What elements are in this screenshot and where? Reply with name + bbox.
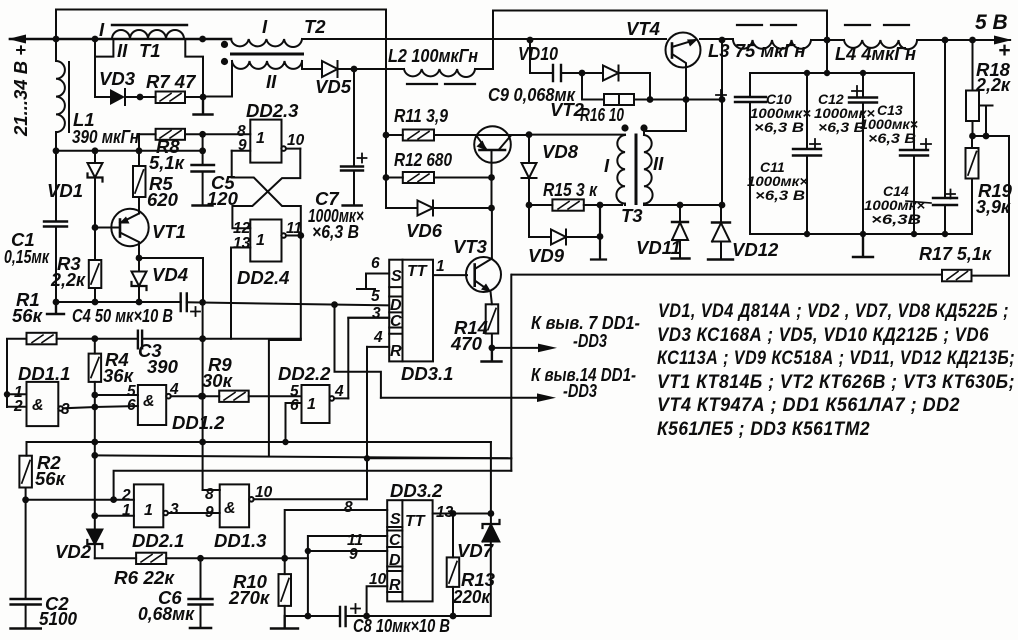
svg-text:620: 620 [147,189,179,210]
node pin6 [91,404,98,411]
svg-text:9: 9 [238,137,247,154]
rail to D input [187,302,389,305]
T3 winding II bottom wire [644,204,722,206]
resistor R18 [966,40,979,136]
svg-text:VD1, VD4 Д814А ; VD2 , VD7,: VD1, VD4 Д814А ; VD2 , VD7, VD8 КД522Б ; [658,301,1009,322]
svg-text:4: 4 [169,381,179,398]
node bank top riser [824,70,830,76]
resistor R11 [386,130,475,141]
long wire 442 [27,441,491,443]
R8 wire to DD2.3 pin8 [139,133,250,135]
svg-text:4: 4 [373,329,383,346]
svg-text:T2: T2 [304,16,326,37]
svg-text:1: 1 [256,130,265,147]
resistor R17 [942,270,1009,282]
node R18 riser top [969,37,976,44]
latch cross wiring [232,149,301,236]
svg-text:L4 4мкГн: L4 4мкГн [835,43,916,64]
node VD1 top [92,147,99,154]
zener VD12 [708,205,733,260]
diode VD8 [522,135,537,205]
svg-text:VD5: VD5 [315,76,352,97]
D net riser [335,305,381,398]
flip-flop DD3.2 [387,500,432,601]
svg-text:×6,3 В: ×6,3 В [868,130,916,146]
node bank top C12 [860,70,866,76]
svg-text:VT1 КТ814Б ; VT2 КТ626В ; VT: VT1 КТ814Б ; VT2 КТ626В ; VT3 КТ630Б; [657,372,1015,393]
svg-text:I: I [99,19,105,40]
bank bottom rail [750,233,972,235]
svg-text:5: 5 [371,288,380,305]
svg-text:6: 6 [290,397,299,414]
capacitor C6 [189,558,213,628]
svg-text:&: & [32,397,44,414]
svg-text:120: 120 [207,188,239,209]
svg-text:2: 2 [13,398,23,415]
resistor R16 [582,73,722,105]
left vertical bus [94,395,96,516]
svg-text:56к: 56к [12,305,44,326]
svg-text:VD9: VD9 [528,245,565,266]
DD3.2 pin13 wire [433,513,491,515]
svg-text:3: 3 [61,401,70,418]
DD2.2 out riser to C [348,318,389,399]
resistor R15 [529,199,600,210]
svg-text:-DD3: -DD3 [563,380,598,401]
svg-text:VD3: VD3 [99,68,136,89]
wire VT2 to T3 [529,134,625,136]
diode VD10 [582,66,650,100]
svg-text:II: II [117,40,128,61]
big vertical rail riser [510,275,512,471]
capacitor C8 [340,604,360,626]
capacitor C11 [793,73,821,234]
svg-text:×6,3 В: ×6,3 В [818,119,865,135]
wire VT4 to L3 [700,38,733,40]
resistor R8 [156,129,185,140]
svg-text:&: & [224,500,236,517]
svg-text:2,2к: 2,2к [975,74,1012,95]
node C3 riser [199,335,206,342]
svg-text:2,2к: 2,2к [50,269,87,290]
svg-text:5 В: 5 В [975,11,1008,34]
resistor R1 [7,333,57,407]
svg-text:10: 10 [369,571,387,588]
svg-text:VD2: VD2 [55,541,92,562]
DD2.4 pin13 riser [230,248,232,339]
DD3.2 R stub [367,586,388,616]
wire between L3 and L4 [811,39,844,41]
svg-text:470: 470 [450,333,483,354]
node C6 top [197,555,204,562]
svg-text:VD1: VD1 [47,180,83,201]
svg-text:VT1: VT1 [152,221,186,242]
svg-text:VD11: VD11 [636,237,681,258]
svg-text:DD3.1: DD3.1 [401,363,453,384]
svg-text:C4 50 мк×10 В: C4 50 мк×10 В [72,305,173,326]
zener VD4 [132,258,147,302]
svg-text:DD2.4: DD2.4 [237,267,289,288]
output arrow K vyv 14 [381,393,556,402]
rail C4 left end [55,301,181,303]
svg-text:КС113А ; VD9 КС518А ; VD11,: КС113А ; VD9 КС518А ; VD11, VD12 КД213Б; [657,348,1015,369]
node A [53,36,60,43]
capacitor C10 [716,73,766,234]
long wire 456 [95,455,512,458]
svg-text:R6 22к: R6 22к [114,567,176,588]
svg-text:3,9к: 3,9к [976,196,1012,217]
node bank bottom C14 [942,231,948,237]
bottom rail of converter [512,274,942,276]
node rail left [53,299,60,306]
C14 callout line [906,201,931,203]
svg-text:DD2.3: DD2.3 [246,100,299,121]
svg-text:8: 8 [205,486,214,503]
svg-text:L2 100мкГн: L2 100мкГн [388,45,478,66]
svg-text:R17 5,1к: R17 5,1к [919,243,993,264]
resistor R3 [89,228,102,303]
DD2.4 out riser [269,236,301,456]
top rail right section [493,11,827,70]
inductor L3 [733,25,811,49]
node R14 bottom [489,345,496,352]
DD3.1 C wire [348,317,389,319]
zener VD2 [87,516,102,559]
T2 core bars [232,53,303,56]
inductor L1 [56,39,69,222]
capacitor C5 [192,134,215,205]
VT3 collector riser [491,208,493,259]
gate DD2.1 [134,484,220,527]
T3 winding I bottom lead [624,204,626,206]
svg-text:DD2.2: DD2.2 [278,363,331,384]
node x202 442line [199,439,206,446]
resistor R13 [447,514,460,617]
DD1.1 input stubs [7,394,27,406]
svg-text:5100: 5100 [39,608,78,629]
svg-text:10: 10 [287,132,305,149]
DD1.2 pin6 wire [95,406,138,407]
capacitor C1 [44,222,67,303]
node collector junction [683,96,690,103]
svg-text:S: S [391,268,402,285]
svg-text:6: 6 [371,255,380,272]
node S net R10 top [281,555,288,562]
node rail R3 [92,299,99,306]
svg-text:VD8: VD8 [542,141,579,162]
node R8-C5 [199,131,206,138]
node VD8 bottom R15 [526,202,533,209]
svg-text:VD6: VD6 [406,220,443,241]
node R15 right [597,202,604,209]
bus 470.8 [114,471,512,500]
node R12 tap [383,174,390,181]
resistor R6 [136,553,166,564]
R14 ground stub [482,348,502,362]
svg-text:VD3 КС168А ; VD5, VD10 КД21: VD3 КС168А ; VD5, VD10 КД212Б ; VD6 [657,325,989,346]
bottom rail with C8 [285,541,491,616]
node C9 top [527,37,534,44]
wire collector to C4 rail [139,258,203,302]
capacitor C13 [900,73,931,234]
svg-text:DD1.1: DD1.1 [18,363,70,384]
DD2.1 pin2 wire [26,499,134,501]
wire L4 to 5V arrow [917,36,1012,45]
capacitor C2 [11,500,41,629]
T2 winding II left lead [203,61,232,97]
riser to VD11/VD12 rail [721,40,723,205]
diode VD9 loop [529,205,600,245]
node VD7 top [488,510,495,517]
capacitor C9 [530,40,582,81]
svg-text:T3: T3 [621,205,643,226]
node D-line riser [331,301,338,308]
svg-text:TT: TT [407,263,428,280]
resistor R14 [486,304,499,348]
svg-text:C8 10мк×10 В: C8 10мк×10 В [353,615,450,636]
svg-text:VD10: VD10 [518,43,559,64]
node R net rail [363,613,370,620]
svg-text:II: II [653,153,664,174]
wire L1 bottom rail [56,150,203,152]
node 442 left bus [91,439,98,446]
transistor VT4 [666,33,701,68]
node C5 riser [199,147,206,154]
gate DD1.3 [220,484,367,527]
svg-text:10: 10 [255,484,273,501]
node R4 top [91,335,98,342]
transistor VT1 [95,209,149,258]
C3 line [57,338,301,340]
node R1 pins [4,391,10,397]
svg-text:DD1.3: DD1.3 [214,530,267,551]
input arrow 21...34V [8,35,56,44]
svg-text:13: 13 [233,235,251,252]
resistor R2 [19,442,32,500]
node C14 riser top [942,37,949,44]
resistor R4 [89,339,102,395]
transistor VT3 [466,257,501,293]
transistor VT2 [474,126,511,208]
node R9 left [198,393,205,400]
flip-flop DD3.1 [389,260,433,362]
svg-text:13: 13 [436,504,454,521]
resistor R7 [140,92,203,104]
svg-text:56к: 56к [35,468,67,489]
node VT1 collector [136,255,143,262]
svg-text:DD3.2: DD3.2 [390,480,443,501]
svg-text:×6,3 В: ×6,3 В [755,187,805,203]
output arrow K vyv 7 [492,344,557,353]
node VD8 top [526,131,533,138]
wire R15 to T3-I [600,204,622,206]
svg-text:I: I [262,16,268,37]
node VD11 top [677,202,684,209]
capacitor C3 [138,331,142,349]
svg-text:R: R [390,343,402,360]
node VD3-R7 [137,94,144,101]
node R2 bottom [22,496,29,503]
svg-text:VT4: VT4 [626,18,660,39]
svg-text:3: 3 [170,501,179,518]
svg-text:R11 3,9: R11 3,9 [394,105,449,126]
T2 winding II [232,61,302,69]
T3 II top lead [643,131,645,135]
svg-text:5,1к: 5,1к [149,152,186,173]
node pin2 bus [110,496,117,503]
riser feedback left [385,135,387,208]
capacitor C4 [181,294,200,317]
VT4 collector wire [644,67,686,131]
svg-text:9: 9 [349,546,358,563]
svg-text:R12 680: R12 680 [394,149,453,170]
svg-text:DD1.2: DD1.2 [172,412,225,433]
capacitor C7 [341,69,367,206]
svg-text:×6,3В: ×6,3В [871,211,921,227]
resistor R9 [219,391,301,402]
svg-text:C: C [390,313,402,330]
svg-text:I: I [604,155,610,176]
node rail riser DD12out [199,299,206,306]
capacitor C12 [849,73,877,234]
node bank bottom C11 [804,231,810,237]
resistor R5 [133,134,146,214]
svg-text:3: 3 [372,305,381,322]
feedback wire R17 right [1008,136,1010,276]
node bank bottom C13 [911,231,917,237]
node DD2.4 out [297,232,304,239]
node B [92,36,99,43]
node DD2.1 pin1 [91,512,98,519]
node C [199,36,206,43]
wire into VT2 [475,134,529,136]
svg-text:1: 1 [307,396,316,413]
node bank top C11 [804,70,810,76]
svg-text:R16 10: R16 10 [580,104,625,125]
riser L3L4 to bank [826,40,828,73]
svg-text:1: 1 [122,502,131,519]
node L3/L4 [824,37,831,44]
DD3.1 R stub [367,346,389,348]
T1 winding II leads [95,39,113,97]
svg-text:II: II [266,71,277,92]
DD2.2 pin6 loop [286,403,302,442]
node C9-VD10 [579,70,586,77]
gate DD2.4 [231,220,301,262]
node VT2 base VD6 [488,205,495,212]
wire T2-II to VD5 [302,61,322,69]
rail left ground stub [47,302,64,314]
diode VD5 [322,61,354,77]
DD2.1 pin1 stub [95,515,134,517]
diode VD3 [95,89,140,105]
main +V wire [56,38,231,41]
svg-text:VD4: VD4 [152,264,188,285]
node R13 bottom [450,613,457,620]
node R11 tap [383,132,390,139]
VT3 emitter to R14 [491,292,492,305]
svg-text:390: 390 [147,356,179,377]
node L1 bottom [53,147,60,154]
svg-text:&: & [143,393,155,410]
svg-text:VT3: VT3 [453,236,488,257]
bank ground stub [853,234,873,257]
svg-text:DD2.1: DD2.1 [132,530,184,551]
svg-text:×6,3 В: ×6,3 В [312,221,359,242]
T2 phasing dots [221,41,228,48]
svg-text:T1: T1 [139,40,161,61]
node x202 R9line [199,393,206,400]
tap stub [973,106,1010,137]
svg-text:R: R [389,577,401,594]
node T3 II bottom right [719,202,726,209]
diode VD6 [386,201,492,216]
node tap [983,133,990,140]
capacitor C14 [933,40,957,234]
svg-text:1: 1 [436,258,445,275]
node R16 right [647,96,654,103]
svg-text:9: 9 [205,504,214,521]
svg-text:VT2: VT2 [550,99,585,120]
svg-text:S: S [390,511,401,528]
svg-text:L3 75 мкГн: L3 75 мкГн [708,40,806,61]
svg-text:390 мкГн: 390 мкГн [72,126,139,147]
R6 line [95,557,308,559]
node 442 pin6 riser [282,439,288,445]
transformer T2 winding I [231,39,302,47]
node rail VD4 [136,299,143,306]
resistor R10 [279,558,292,616]
vertical DD1.2out-DD1.3pin8 [203,302,220,490]
gate DD2.3 [232,120,301,163]
svg-text:1: 1 [144,502,153,519]
node pin5 [91,392,98,399]
R10 ground stub [271,616,298,629]
svg-text:-DD3: -DD3 [573,330,608,351]
node bank bottom C12 [860,231,866,237]
inductor L2 [404,69,493,84]
svg-text:VD7: VD7 [457,540,495,561]
svg-text:0,68мк: 0,68мк [138,603,196,624]
node VD5 out [351,66,358,73]
svg-text:4: 4 [334,383,344,400]
svg-text:30к: 30к [202,370,234,391]
ground stub R15 node [591,205,606,260]
node R18 bottom [969,133,976,140]
node C D tie [305,548,311,554]
node VD9 right [597,233,604,240]
wire T2 to VT4 [302,38,666,40]
R net jumper to big vertical [367,457,511,459]
DD1.2 pin5 wire [95,394,138,396]
inductor L4 [844,25,917,49]
svg-text:8: 8 [344,499,353,516]
R8 left riser [138,134,140,151]
T1 winding II right lead [185,39,203,97]
node R5 top [136,147,143,154]
S wire to DD3.2 [285,510,388,558]
node R7 right [200,94,207,101]
DD1.3 pin8 stub [203,489,220,491]
svg-text:0,15мк: 0,15мк [4,246,50,267]
gate DD2.2 [302,385,349,423]
DD3.1 pin6 ground tick [357,274,389,290]
node R net [364,455,370,461]
filter bank top rail [750,72,914,74]
svg-text:R7 47: R7 47 [146,71,197,92]
ground bar under R7 node [194,97,213,115]
node right riser top [719,96,726,103]
